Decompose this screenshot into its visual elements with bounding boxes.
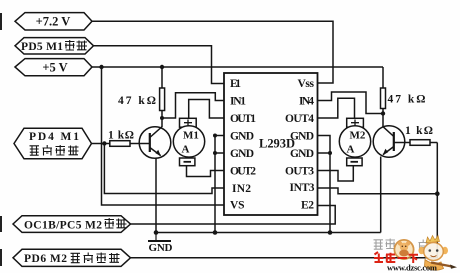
wire Q2 base to R4 bbox=[394, 142, 410, 144]
node PD4 M1 direction flag bbox=[14, 128, 92, 159]
node junction dot PD4/IN2 bbox=[102, 141, 106, 145]
svg-text:GND: GND bbox=[230, 130, 254, 142]
transistor Q1 bbox=[139, 127, 171, 159]
node PD5 M1 flag bbox=[15, 38, 94, 54]
svg-text:IN2: IN2 bbox=[232, 183, 251, 195]
wire OUT4 to M2 plus bbox=[318, 98, 355, 118]
transistor Q2 bbox=[373, 126, 405, 158]
wire +5V to R3 47k right bbox=[382, 67, 384, 88]
watermark bbox=[374, 236, 458, 273]
left mascot badge bbox=[394, 240, 414, 260]
svg-text:OUT4: OUT4 bbox=[285, 113, 314, 125]
node OC1B/PC5 M2 flag bbox=[13, 216, 131, 233]
wire R2 to Q1 base bbox=[130, 143, 150, 145]
label 启动 (PD5 flag) bbox=[65, 40, 75, 51]
svg-text:A: A bbox=[347, 144, 355, 156]
node junction dot bus/GND left bbox=[213, 230, 218, 235]
wire PD6 to base network M2 bbox=[131, 143, 438, 258]
svg-text:1 kΩ: 1 kΩ bbox=[405, 125, 433, 137]
wire +5V rail bbox=[92, 66, 383, 68]
resistor R2 1k bbox=[110, 141, 130, 147]
svg-text:GND: GND bbox=[149, 242, 173, 254]
label 启动 (OC1B flag) bbox=[105, 218, 115, 229]
svg-text:1 kΩ: 1 kΩ bbox=[108, 130, 134, 142]
wire R4 to PD6 riser bbox=[430, 142, 437, 144]
wire Q2 emitter to ground bus bbox=[380, 157, 382, 233]
wire R1 bottom to Q1 collector bbox=[161, 111, 163, 128]
svg-text:PD6 M2: PD6 M2 bbox=[24, 253, 67, 265]
svg-text:E2: E2 bbox=[301, 200, 314, 212]
wire R3 bottom to Q2 collector bbox=[382, 109, 384, 128]
svg-text:M2: M2 bbox=[350, 129, 366, 141]
wire GND2 left stub bbox=[215, 152, 224, 154]
node PD6 M2 direction flag bbox=[13, 249, 131, 266]
node junction dot +5V/R1 bbox=[160, 65, 164, 69]
wire M1 minus to OUT2 bbox=[187, 166, 225, 177]
svg-text:VS: VS bbox=[230, 200, 245, 212]
node +5V flag bbox=[15, 59, 92, 76]
wire OUT1 loop to M1 plus bbox=[189, 100, 224, 119]
resistor R3 47k bbox=[381, 88, 386, 109]
wire PD5 to E1 bbox=[94, 46, 225, 84]
node junction dot +5V/VS bbox=[99, 65, 103, 69]
svg-text:GND: GND bbox=[290, 148, 314, 160]
node junction dot bus/GND right bbox=[328, 230, 333, 235]
svg-text:GND: GND bbox=[230, 148, 254, 160]
wire +5V to R1 47k left bbox=[161, 67, 163, 88]
wire GND pins right to bus bbox=[318, 136, 331, 233]
wire OUT3 to M1 minus bbox=[318, 166, 354, 181]
node +7.2V flag bbox=[15, 13, 92, 30]
svg-text:+5 V: +5 V bbox=[42, 60, 67, 74]
svg-text:Vss: Vss bbox=[298, 78, 315, 90]
node junction dot GND1 left bbox=[213, 134, 217, 138]
edge artifact marks bbox=[0, 13, 2, 30]
motor M2 bbox=[339, 118, 370, 165]
svg-text:+7.2 V: +7.2 V bbox=[36, 14, 71, 28]
label 方向控制 (PD6 flag) bbox=[71, 253, 81, 262]
op IC U1 L293D bbox=[224, 73, 318, 215]
node junction dot collector/IN1 bbox=[160, 116, 164, 120]
label 方向控制 (PD4 flag) bbox=[30, 146, 40, 155]
svg-text:www.dzsc.com: www.dzsc.com bbox=[387, 263, 437, 273]
node junction dot PD6/INT3 bbox=[435, 191, 440, 196]
svg-text:OUT2: OUT2 bbox=[230, 165, 256, 177]
svg-text:IN1: IN1 bbox=[230, 95, 246, 107]
ground symbol bbox=[155, 233, 157, 241]
resistor R1 47k bbox=[160, 88, 165, 111]
motor M1 bbox=[173, 118, 204, 165]
wire Q1 emitter to ground bus bbox=[155, 158, 157, 233]
node junction dot IN4/R3 bbox=[381, 111, 385, 115]
wire PD4 down to IN2 bbox=[104, 144, 224, 194]
svg-text:OUT3: OUT3 bbox=[285, 165, 314, 177]
wire ground bus bbox=[156, 232, 381, 234]
red brand text bbox=[374, 252, 418, 263]
wire IN1 loop bbox=[162, 93, 224, 118]
svg-text:GND: GND bbox=[290, 130, 314, 142]
wire INT3 to PD6 riser bbox=[318, 188, 438, 194]
resistor R4 1k bbox=[410, 140, 430, 146]
wire PD4 to R2 1k left bbox=[92, 143, 110, 145]
wire GND pins left to bus bbox=[215, 136, 224, 233]
svg-text:A: A bbox=[182, 144, 190, 156]
wire +5V down to VS pin bbox=[102, 67, 225, 205]
node junction dot bus/Q1 emitter bbox=[154, 230, 159, 235]
wire OC1B to E2 bbox=[131, 206, 336, 225]
node junction dot GND2 right bbox=[328, 151, 332, 155]
node junction dot GND2 left bbox=[213, 151, 217, 155]
svg-text:IN4: IN4 bbox=[299, 95, 314, 107]
wire IN4 to Q2 collector bbox=[318, 92, 384, 114]
svg-text:OC1B/PC5 M2: OC1B/PC5 M2 bbox=[24, 219, 102, 231]
wire GND2 right stub bbox=[318, 152, 331, 154]
svg-text:M1: M1 bbox=[183, 129, 199, 141]
right mascot bbox=[419, 236, 458, 271]
svg-text:PD5 M1: PD5 M1 bbox=[21, 41, 63, 53]
svg-text:INT3: INT3 bbox=[290, 182, 315, 194]
svg-text:E1: E1 bbox=[230, 78, 241, 90]
svg-text:OUT1: OUT1 bbox=[230, 113, 256, 125]
wire +7.2V to Vss bbox=[92, 21, 333, 83]
